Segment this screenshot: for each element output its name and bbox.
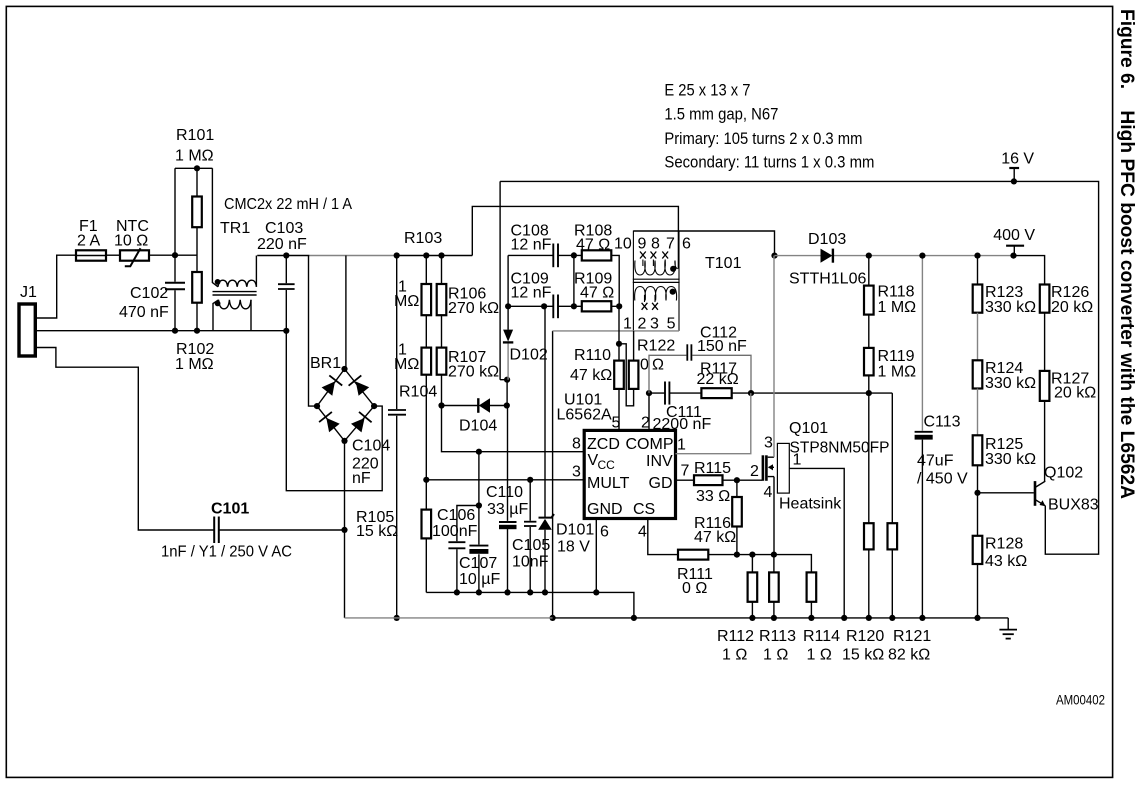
resistor R101 [196, 168, 198, 272]
capacitor C102 [174, 255, 176, 331]
svg-text:R115: R115 [694, 460, 731, 477]
wire top loop above R101 [175, 168, 212, 255]
svg-text:BUX83: BUX83 [1048, 497, 1099, 514]
capacitor C113 [921, 256, 923, 431]
svg-text:10: 10 [614, 236, 632, 253]
svg-text:STTH1L06: STTH1L06 [789, 271, 866, 288]
node compensation X [646, 390, 652, 396]
resistor R103 [425, 256, 427, 285]
svg-text:6: 6 [682, 236, 691, 253]
svg-text:7: 7 [666, 236, 675, 253]
capacitor C112 loop [649, 355, 751, 393]
resistor R108 [574, 255, 619, 306]
svg-text:C113: C113 [924, 414, 961, 431]
svg-text:400 V: 400 V [993, 227, 1035, 244]
svg-text:Figure 6. High PFC boost co: Figure 6. High PFC boost converter with … [1116, 9, 1137, 499]
svg-text:Primary: 105 turns 2 x 0.3 mm: Primary: 105 turns 2 x 0.3 mm [664, 129, 862, 148]
resistor R115 [694, 475, 723, 485]
T101 primary tap x marks [640, 252, 668, 259]
capacitor C111 [649, 392, 701, 394]
wire J1 pin3 to C101 [35, 348, 214, 531]
400V rail right portion [978, 255, 1014, 257]
svg-text:R118: R118 [878, 284, 915, 301]
svg-text:1 MΩ: 1 MΩ [175, 356, 214, 373]
svg-text:Q101: Q101 [789, 420, 828, 437]
svg-text:82 kΩ: 82 kΩ [888, 647, 930, 664]
T101 secondary tap x marks [642, 303, 658, 310]
svg-text:C107: C107 [459, 555, 497, 572]
resistor R117 [701, 388, 731, 398]
resistor R118 [868, 256, 870, 286]
capacitor C109 [508, 305, 574, 307]
zener diode D101 [544, 306, 546, 592]
resistor R111 [678, 550, 708, 560]
svg-text:R121: R121 [893, 628, 931, 645]
svg-text:C104: C104 [352, 438, 390, 455]
phase dot T101 secondary [670, 289, 676, 295]
svg-text:1 MΩ: 1 MΩ [878, 299, 917, 316]
svg-text:100nF: 100nF [432, 523, 478, 540]
wire Vcc row to IC pin 8 [442, 406, 585, 452]
node C101 junction [341, 527, 347, 533]
resistor R109 [574, 305, 619, 307]
svg-text:330 kΩ: 330 kΩ [985, 299, 1036, 316]
svg-text:CS: CS [633, 501, 655, 518]
400V terminal [1006, 245, 1024, 247]
node Q102 base junction [974, 490, 980, 496]
resistor R128 [977, 493, 979, 536]
resistor R107 [441, 315, 443, 347]
svg-text:D104: D104 [459, 418, 497, 435]
svg-text:MULT: MULT [587, 475, 630, 492]
resistor R104 [425, 315, 427, 347]
svg-text:150 nF: 150 nF [697, 338, 747, 355]
svg-text:/ 450 V: / 450 V [917, 471, 968, 488]
resistor R112 [751, 555, 753, 573]
svg-text:47 Ω: 47 Ω [580, 285, 614, 302]
svg-text:10nF: 10nF [512, 554, 549, 571]
drain wire to D103 node [773, 256, 775, 458]
svg-text:BR1: BR1 [310, 355, 341, 372]
wire IC pin4 CS [648, 519, 678, 555]
svg-text:R104: R104 [399, 384, 437, 401]
svg-text:47uF: 47uF [917, 453, 954, 470]
wire rail to BR1 left vertex [309, 256, 318, 407]
svg-text:MΩ: MΩ [394, 293, 419, 310]
svg-text:330 kΩ: 330 kΩ [985, 375, 1036, 392]
top rail TR1 to R103 area [257, 255, 309, 257]
bridge rectifier BR1 [317, 369, 374, 441]
svg-text:330 kΩ: 330 kΩ [985, 451, 1036, 468]
svg-text:43 kΩ: 43 kΩ [985, 553, 1027, 570]
svg-text:22 kΩ: 22 kΩ [697, 371, 739, 388]
resistor R114 [807, 572, 817, 601]
svg-text:nF: nF [352, 470, 371, 487]
svg-text:1: 1 [793, 452, 802, 469]
resistor R121 [891, 393, 893, 523]
svg-text:J1: J1 [20, 284, 37, 301]
wire between F1 and NTC [106, 254, 120, 256]
bridge diode top-right [356, 382, 370, 396]
connector J1 [19, 304, 35, 356]
capacitor C101 [213, 517, 215, 544]
svg-text:4: 4 [638, 524, 647, 541]
svg-text:R122: R122 [637, 338, 675, 355]
svg-text:47 Ω: 47 Ω [576, 237, 610, 254]
phase dot TR1 top winding [215, 279, 221, 285]
capacitor C105 [529, 480, 531, 593]
resistor R110 [618, 306, 620, 360]
capacitor C104 [396, 256, 398, 618]
svg-text:C110: C110 [486, 484, 523, 501]
svg-text:R119: R119 [878, 348, 915, 365]
svg-text:R112: R112 [717, 628, 754, 645]
svg-text:1 Ω: 1 Ω [807, 647, 832, 664]
svg-text:Secondary: 11 turns 1 x 0.3 mm: Secondary: 11 turns 1 x 0.3 mm [664, 153, 874, 172]
capacitor C103 [285, 256, 287, 331]
svg-text:C101: C101 [211, 501, 249, 518]
svg-text:R114: R114 [803, 628, 840, 645]
bridge diode bottom-right [351, 418, 365, 432]
resistor R124 [977, 313, 979, 361]
wire IC pin6 to bus [595, 519, 597, 593]
resistor R120 [864, 523, 874, 549]
svg-text:Heatsink: Heatsink [779, 496, 842, 513]
resistor R119 [868, 315, 870, 348]
svg-text:R128: R128 [985, 536, 1023, 553]
capacitor C106 [457, 506, 479, 593]
svg-text:12 nF: 12 nF [511, 237, 552, 254]
svg-text:2: 2 [750, 463, 759, 480]
svg-text:1 MΩ: 1 MΩ [878, 364, 917, 381]
capacitor C107 [478, 452, 480, 593]
svg-text:2: 2 [638, 316, 647, 333]
svg-text:R110: R110 [574, 347, 611, 364]
MOSFET Q101 [762, 455, 765, 481]
bottom rail TR1 to C103 [213, 330, 286, 332]
svg-text:4: 4 [764, 484, 773, 501]
svg-text:T101: T101 [705, 255, 742, 272]
16V supply rail [500, 181, 1099, 554]
wire C108-C109 left loop [507, 255, 509, 306]
common mode choke TR1 [212, 168, 256, 330]
svg-text:7: 7 [681, 463, 690, 480]
svg-text:Q102: Q102 [1044, 465, 1083, 482]
svg-text:D102: D102 [510, 347, 548, 364]
svg-text:CMC2x 22 mH / 1 A: CMC2x 22 mH / 1 A [224, 196, 352, 213]
svg-text:1: 1 [677, 437, 686, 454]
capacitor C110 [507, 406, 509, 593]
svg-text:3: 3 [764, 435, 773, 452]
node R110 top junction [616, 341, 622, 347]
svg-text:Ω: Ω [652, 357, 664, 374]
main ground rail [345, 617, 553, 619]
svg-text:9: 9 [638, 236, 647, 253]
svg-text:COMP: COMP [626, 436, 674, 453]
svg-text:C103: C103 [265, 220, 303, 237]
svg-text:MΩ: MΩ [394, 356, 419, 373]
resistor R105 [425, 480, 427, 510]
resistor R125 [977, 389, 979, 436]
svg-text:5: 5 [612, 415, 621, 432]
transistor Q102 [978, 492, 1034, 494]
wire rail to BR1 top vertex [345, 256, 347, 370]
resistor R126 [1040, 285, 1050, 313]
wire INV pin1 [676, 393, 751, 454]
wire IC pin2 COMP [648, 393, 650, 430]
svg-text:10 µF: 10 µF [459, 571, 500, 588]
svg-text:R113: R113 [759, 628, 796, 645]
phase dot T101 primary [670, 266, 676, 272]
svg-text:2200 nF: 2200 nF [653, 416, 712, 433]
node C102 bottom rail [172, 328, 178, 334]
svg-text:470 nF: 470 nF [119, 304, 169, 321]
T101 secondary winding [635, 287, 677, 303]
svg-text:GND: GND [587, 501, 623, 518]
resistor R116 [736, 480, 738, 497]
svg-text:1.5 mm gap, N67: 1.5 mm gap, N67 [664, 105, 778, 124]
wire T101 pin1 column to ground rail [552, 331, 554, 618]
svg-text:ZCD: ZCD [587, 436, 620, 453]
wire GD pin7 to R115 [676, 479, 695, 481]
svg-text:0 Ω: 0 Ω [682, 580, 707, 597]
svg-text:12 nF: 12 nF [511, 285, 552, 302]
svg-text:C102: C102 [130, 285, 168, 302]
svg-text:15 kΩ: 15 kΩ [356, 523, 398, 540]
wire T101 top to D103 rail [633, 231, 774, 256]
T101 pin1 wire (box bottom, gray) [553, 330, 679, 332]
svg-text:3: 3 [650, 316, 659, 333]
svg-text:16 V: 16 V [1001, 151, 1034, 168]
phase dot TR1 bottom winding [215, 301, 221, 307]
resistor R123 [977, 256, 979, 285]
wire NTC to R101 column [149, 254, 197, 256]
node NTC/C102 junction [172, 252, 178, 258]
svg-text:3: 3 [572, 464, 581, 481]
svg-text:33 µF: 33 µF [487, 501, 528, 518]
ground symbol [1007, 618, 1009, 630]
node Vcc jog and 16V feed [500, 181, 507, 379]
16V terminal [1009, 167, 1019, 169]
svg-text:270 kΩ: 270 kΩ [448, 364, 499, 381]
diode D103 on 400V rail [775, 255, 978, 257]
bridge diode bottom-left [326, 418, 339, 432]
fuse F1 [76, 250, 106, 260]
node R101 top [194, 165, 200, 171]
svg-text:R103: R103 [404, 230, 442, 247]
svg-text:1 MΩ: 1 MΩ [175, 148, 214, 165]
svg-text:0: 0 [640, 357, 649, 374]
svg-text:1nF / Y1 / 250 V AC: 1nF / Y1 / 250 V AC [161, 544, 292, 561]
svg-text:C106: C106 [437, 507, 475, 524]
svg-text:D103: D103 [808, 231, 846, 248]
transformer T101 box [633, 231, 679, 331]
thermistor NTC [120, 250, 149, 260]
svg-text:47 kΩ: 47 kΩ [694, 529, 736, 546]
svg-text:D101: D101 [556, 522, 594, 539]
resistor R127 [1044, 313, 1046, 371]
T101 primary winding [635, 260, 678, 276]
svg-text:INV: INV [646, 453, 673, 470]
svg-text:270 kΩ: 270 kΩ [448, 300, 499, 317]
svg-text:18 V: 18 V [557, 539, 590, 556]
diode D102 [507, 306, 509, 330]
wire C103 column down to BR1 right vertex [286, 331, 382, 491]
bridge diode top-left [322, 381, 335, 395]
wire rail corner up to ZCD top line and to T101 pin 6 [472, 206, 678, 268]
heatsink [777, 443, 789, 493]
svg-text:R120: R120 [846, 628, 884, 645]
svg-text:TR1: TR1 [220, 220, 250, 237]
svg-text:5: 5 [667, 316, 676, 333]
diode D104 [442, 405, 507, 407]
wire BR1 bottom vertex down to ground rail [344, 441, 346, 618]
svg-text:20 kΩ: 20 kΩ [1054, 385, 1096, 402]
T101 core [633, 278, 680, 280]
svg-text:15 kΩ: 15 kΩ [842, 647, 884, 664]
svg-text:1 Ω: 1 Ω [763, 647, 788, 664]
svg-text:2 A: 2 A [77, 233, 100, 250]
svg-text:STP8NM50FP: STP8NM50FP [790, 440, 890, 457]
wire J1 pin1 to fuse [35, 255, 76, 318]
svg-text:E 25 x 13 x 7: E 25 x 13 x 7 [664, 80, 750, 99]
resistor R106 [441, 256, 443, 285]
wire J1 pin2 bottom rail to TR1 [35, 330, 213, 332]
resistor R102 [192, 272, 202, 303]
svg-text:GD: GD [649, 475, 673, 492]
svg-text:1 Ω: 1 Ω [722, 647, 747, 664]
resistor R113 [773, 555, 775, 573]
svg-text:8: 8 [572, 436, 581, 453]
node R102 bottom rail [194, 328, 200, 334]
resistor R122 with hairpin [619, 344, 634, 406]
svg-text:CC: CC [598, 458, 616, 472]
svg-text:47 kΩ: 47 kΩ [570, 367, 612, 384]
local ground bus [426, 592, 634, 618]
svg-text:6: 6 [600, 524, 609, 541]
capacitor C108 [508, 254, 574, 256]
svg-text:220 nF: 220 nF [257, 236, 307, 253]
IC U101 box [584, 430, 675, 518]
source wire to CS node [773, 477, 775, 555]
svg-text:20 kΩ: 20 kΩ [1051, 299, 1093, 316]
svg-text:L6562A: L6562A [557, 407, 612, 424]
svg-text:33 Ω: 33 Ω [696, 488, 730, 505]
svg-text:8: 8 [651, 236, 660, 253]
svg-text:1: 1 [623, 316, 632, 333]
svg-text:10 Ω: 10 Ω [114, 233, 148, 250]
svg-text:R101: R101 [176, 127, 214, 144]
transformer spec text block [664, 80, 874, 171]
wire MULT row [426, 479, 584, 481]
svg-text:AM00402: AM00402 [1056, 692, 1105, 708]
